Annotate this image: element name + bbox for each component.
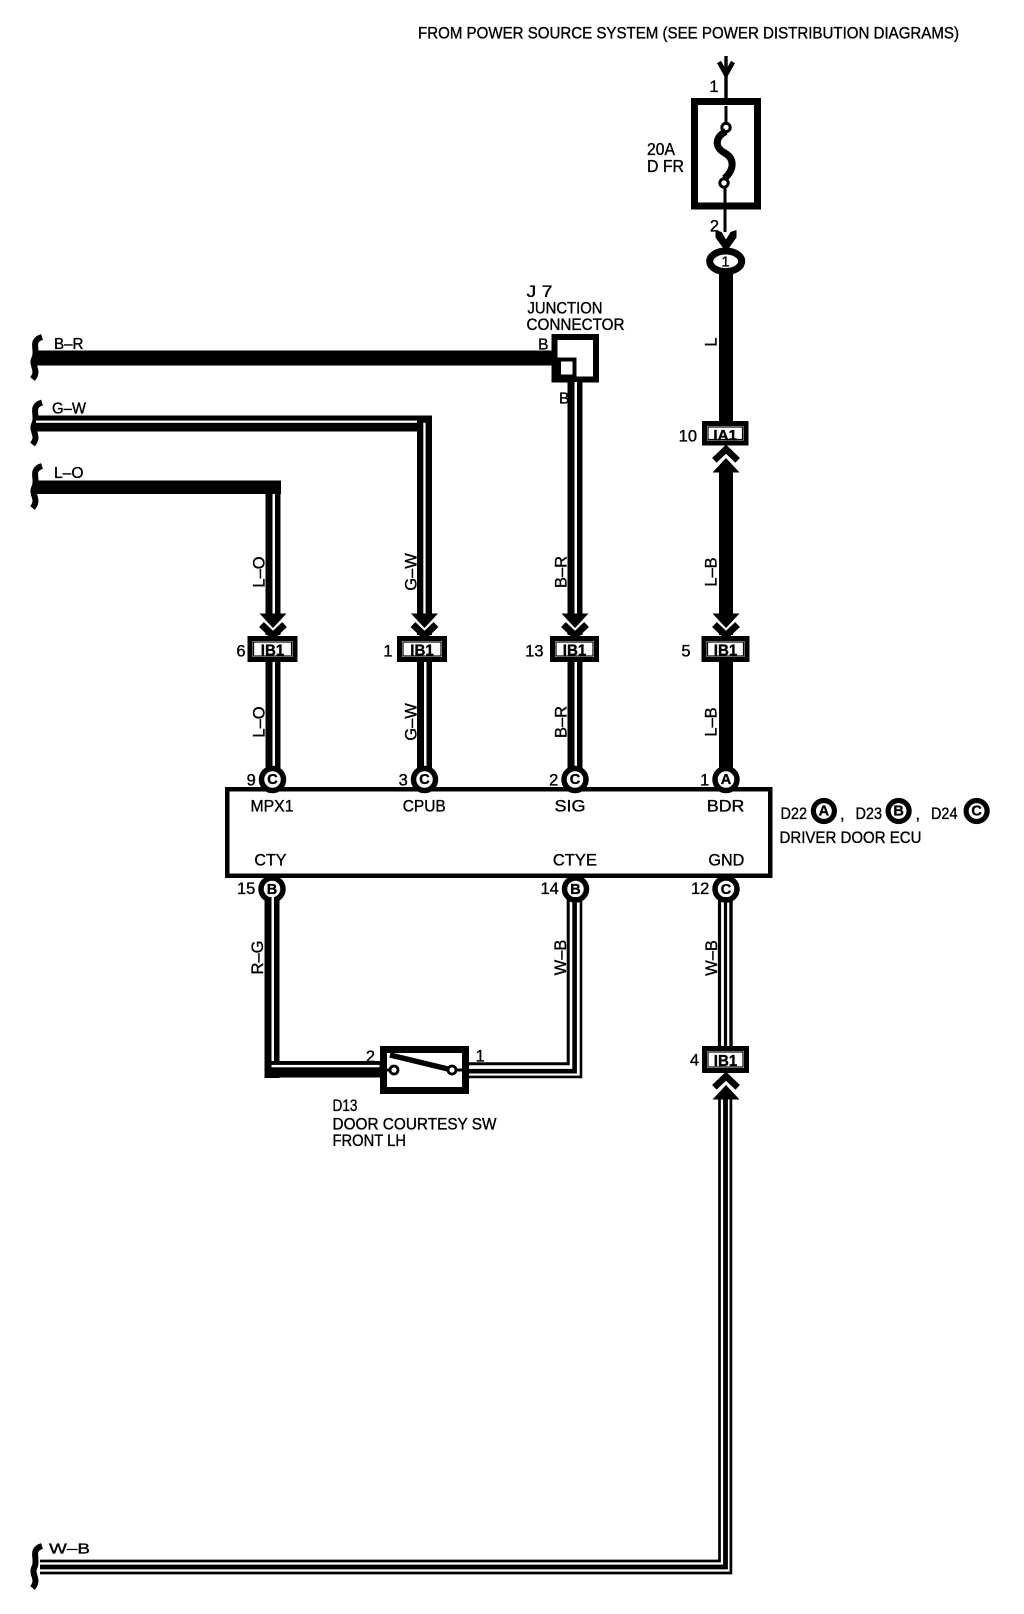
- svg-text:B–R: B–R: [54, 336, 84, 353]
- svg-text:15: 15: [237, 880, 255, 898]
- connector 4 IB1: [690, 1049, 747, 1071]
- svg-text:2: 2: [549, 772, 558, 790]
- svg-text:G–W: G–W: [52, 401, 86, 418]
- wire R-G horizontal to switch: [265, 1061, 384, 1078]
- arrowhead power feed: [719, 62, 733, 75]
- svg-text:C: C: [570, 772, 581, 788]
- wire L-O horizontal: [36, 481, 281, 495]
- svg-text:1: 1: [700, 772, 709, 790]
- svg-text:A: A: [819, 804, 830, 820]
- wire R-G vertical: [265, 897, 280, 1078]
- svg-text:IB1: IB1: [563, 642, 587, 659]
- ECU pin 9 MPX1: [262, 769, 284, 791]
- svg-text:B: B: [538, 337, 548, 354]
- driver door ECU box: [227, 789, 770, 876]
- svg-text:1: 1: [721, 255, 729, 271]
- svg-text:DOOR COURTESY SW: DOOR COURTESY SW: [333, 1116, 497, 1134]
- svg-text:C: C: [267, 772, 278, 788]
- svg-text:CTYE: CTYE: [553, 852, 597, 870]
- svg-text:D13: D13: [333, 1097, 358, 1115]
- svg-text:3: 3: [399, 772, 408, 790]
- svg-text:BDR: BDR: [707, 798, 745, 816]
- wire G-W lower: [417, 662, 432, 768]
- connector 10 IA1: [679, 424, 746, 446]
- svg-text:IB1: IB1: [714, 642, 738, 659]
- wire L-B IA1 to 5 IB1: [719, 469, 733, 635]
- svg-text:W–B: W–B: [49, 1541, 90, 1558]
- arrow into 5 IB1: [713, 614, 740, 636]
- junction connector J7: [527, 283, 625, 408]
- svg-text:SIG: SIG: [555, 798, 586, 816]
- fuse 20A D FR: [647, 102, 758, 233]
- svg-text:IA1: IA1: [713, 427, 737, 444]
- svg-text:FRONT LH: FRONT LH: [333, 1132, 407, 1150]
- svg-text:1: 1: [383, 643, 392, 661]
- svg-text:L–B: L–B: [703, 557, 721, 586]
- connector 5 IB1: [681, 639, 747, 661]
- svg-text:JUNCTION: JUNCTION: [528, 300, 603, 318]
- wire W-B gnd upper triple: [718, 897, 721, 1049]
- connector 13 IB1: [525, 639, 596, 661]
- svg-text:FROM POWER SOURCE SYSTEM (SEE: FROM POWER SOURCE SYSTEM (SEE POWER DIST…: [418, 25, 959, 43]
- ECU pin 14 CTYE: [565, 878, 587, 900]
- arrow into 1 IB1: [411, 614, 438, 636]
- wire W-B long run triple: [40, 1097, 720, 1561]
- ECU pin 12 GND: [715, 878, 737, 900]
- svg-text:DRIVER DOOR ECU: DRIVER DOOR ECU: [780, 829, 922, 847]
- arrowhead into splice I1: [716, 230, 737, 250]
- arrow out of 4 IB1: [713, 1077, 740, 1100]
- wire G-W vertical: [417, 416, 432, 636]
- off-page connector W-B bottom: [33, 1546, 43, 1588]
- svg-text:B: B: [267, 882, 277, 898]
- arrow out of IA1: [713, 450, 740, 473]
- arrow into 13 IB1: [562, 614, 589, 636]
- svg-text:B–R: B–R: [553, 556, 571, 588]
- svg-text:D23: D23: [856, 805, 883, 823]
- arrow into 6 IB1: [260, 614, 287, 636]
- wire G-W horizontal: [36, 416, 432, 432]
- svg-text:5: 5: [681, 643, 690, 661]
- svg-text:D24: D24: [931, 805, 958, 823]
- wire L-B 5 IB1 to ECU: [719, 662, 733, 768]
- svg-text:IB1: IB1: [261, 642, 285, 659]
- svg-text:D FR: D FR: [647, 156, 684, 176]
- svg-text:C: C: [721, 882, 732, 898]
- svg-text:G–W: G–W: [403, 703, 421, 741]
- svg-text:B: B: [570, 882, 580, 898]
- connector 6 IB1: [236, 639, 295, 661]
- ECU pin 1 BDR: [715, 769, 737, 791]
- ECU pin 3 CPUB: [414, 769, 436, 791]
- svg-text:MPX1: MPX1: [251, 798, 294, 816]
- svg-text:W–B: W–B: [703, 940, 721, 976]
- svg-text:14: 14: [540, 880, 558, 898]
- svg-text:R–G: R–G: [249, 941, 267, 975]
- svg-text:4: 4: [690, 1052, 699, 1070]
- svg-text:C: C: [971, 804, 982, 820]
- svg-text:A: A: [721, 772, 732, 788]
- off-page connector L-O: [33, 466, 43, 508]
- off-page connector B-R: [33, 337, 43, 379]
- svg-text:CTY: CTY: [254, 852, 286, 870]
- svg-text:W–B: W–B: [552, 940, 570, 976]
- svg-text:1: 1: [709, 78, 718, 96]
- wire power feed into fuse: [724, 56, 727, 124]
- svg-text:L–O: L–O: [54, 465, 84, 482]
- svg-text:IB1: IB1: [714, 1053, 738, 1070]
- svg-text:D22: D22: [781, 805, 808, 823]
- svg-text:12: 12: [691, 880, 709, 898]
- wire L-O vertical: [266, 481, 281, 636]
- svg-text:CPUB: CPUB: [403, 798, 446, 816]
- wire L splice to IA1: [719, 272, 733, 423]
- wire B-R horizontal: [36, 351, 552, 366]
- door courtesy switch D13: [366, 1048, 485, 1091]
- svg-text:6: 6: [236, 643, 245, 661]
- svg-text:13: 13: [525, 643, 543, 661]
- svg-text:,: ,: [916, 806, 921, 824]
- connector 1 IB1: [383, 639, 444, 661]
- ECU pin 15 CTY: [261, 878, 283, 900]
- svg-text:10: 10: [679, 428, 697, 446]
- svg-text:G–W: G–W: [403, 553, 421, 591]
- svg-text:CONNECTOR: CONNECTOR: [527, 316, 625, 334]
- svg-text:L–B: L–B: [703, 707, 721, 736]
- svg-text:IB1: IB1: [410, 642, 434, 659]
- svg-text:B: B: [893, 804, 903, 820]
- svg-text:GND: GND: [708, 852, 744, 870]
- splice I1: [710, 251, 742, 272]
- wire B-R vertical: [568, 378, 583, 635]
- wire W-B from CTYE: [466, 897, 568, 1064]
- svg-text:C: C: [419, 772, 430, 788]
- off-page connector G-W: [33, 403, 43, 445]
- svg-text:B–R: B–R: [553, 706, 571, 738]
- svg-text:,: ,: [840, 806, 845, 824]
- wire L-O lower: [266, 662, 281, 768]
- wire B-R lower: [568, 662, 583, 768]
- svg-text:9: 9: [247, 772, 256, 790]
- svg-text:J 7: J 7: [527, 283, 553, 301]
- svg-text:L: L: [703, 337, 721, 346]
- svg-text:1: 1: [476, 1048, 485, 1066]
- svg-text:L–O: L–O: [251, 706, 269, 737]
- svg-text:L–O: L–O: [251, 556, 269, 587]
- svg-text:2: 2: [366, 1048, 375, 1066]
- ECU pin 2 SIG: [564, 769, 586, 791]
